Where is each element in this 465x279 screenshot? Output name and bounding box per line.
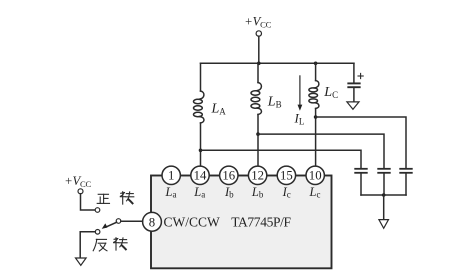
wire LA to pin14 (200, 123, 202, 166)
svg-text:10: 10 (309, 169, 322, 183)
label forward (zhuan) (120, 192, 134, 204)
wire bus to LA top (200, 63, 202, 91)
wire bus to LB top (257, 63, 259, 82)
terminal +Vcc left (78, 189, 83, 194)
svg-text:8: 8 (149, 215, 155, 229)
inductor LC (309, 81, 319, 109)
switch S1 arm with arrow (102, 222, 117, 229)
svg-text:16: 16 (222, 169, 235, 183)
ground bottom right (379, 220, 389, 229)
pin 10 (306, 166, 324, 184)
ground under C4 (347, 102, 359, 109)
polarity + of C4 (358, 73, 363, 78)
wire C2 bottom (383, 174, 385, 195)
pin 1 (162, 166, 180, 184)
label reverse (fan) (93, 239, 107, 251)
svg-text:CW/CCW: CW/CCW (164, 214, 221, 229)
inductor LA (194, 91, 204, 123)
wire node A to C1 (201, 150, 362, 168)
wire reverse contact to ground (80, 232, 95, 258)
pin 15 (277, 166, 295, 184)
junction caps bottom (382, 193, 386, 197)
IC U1 TA7745P/F body (151, 176, 332, 269)
svg-text:TA7745P/F: TA7745P/F (231, 214, 291, 229)
label reverse (zhuan) (114, 238, 128, 250)
wire Vcc vertical (258, 36, 260, 63)
terminal +Vcc top (256, 31, 261, 36)
wire C3 bottom (405, 174, 407, 195)
wire C1 bottom (360, 174, 362, 195)
junction on bus at Vcc (257, 62, 261, 66)
junction node C (314, 115, 318, 119)
label forward (zheng) (97, 194, 109, 203)
capacitor C3 (400, 169, 412, 173)
ground switch (76, 258, 87, 265)
junction node B (256, 132, 260, 136)
current arrow IL (298, 76, 303, 111)
wire node B to C2 (258, 134, 384, 168)
wire bus to LC top (315, 63, 317, 80)
wire LC to pin10 (315, 109, 317, 167)
wire node C to C3 (316, 117, 406, 168)
pin 12 (248, 166, 266, 184)
wire bus to C4 (353, 63, 355, 82)
wire to ground (383, 195, 385, 220)
switch S1 pole (116, 219, 121, 224)
pin 14 (191, 166, 209, 184)
wire Vcc to forward contact (81, 194, 96, 210)
switch S1 forward contact (95, 208, 100, 213)
junction node A (199, 149, 203, 153)
inductor LB (251, 83, 261, 115)
svg-text:12: 12 (251, 169, 264, 183)
capacitor C2 (378, 169, 390, 173)
switch S1 reverse contact (95, 230, 100, 235)
wire LB to pin12 (257, 115, 259, 167)
pin 16 (220, 166, 238, 184)
wire caps common bottom (361, 194, 406, 196)
wire top bus (201, 62, 354, 64)
wire pole to pin8 (121, 220, 143, 222)
svg-text:14: 14 (194, 169, 207, 183)
svg-text:15: 15 (280, 169, 293, 183)
junction on bus at Lc branch (314, 62, 318, 66)
wire C4 to ground (353, 88, 355, 102)
capacitor C1 (355, 169, 367, 173)
capacitor C4 polarized (348, 83, 359, 87)
pin 8 (143, 212, 162, 231)
svg-text:1: 1 (168, 169, 174, 183)
